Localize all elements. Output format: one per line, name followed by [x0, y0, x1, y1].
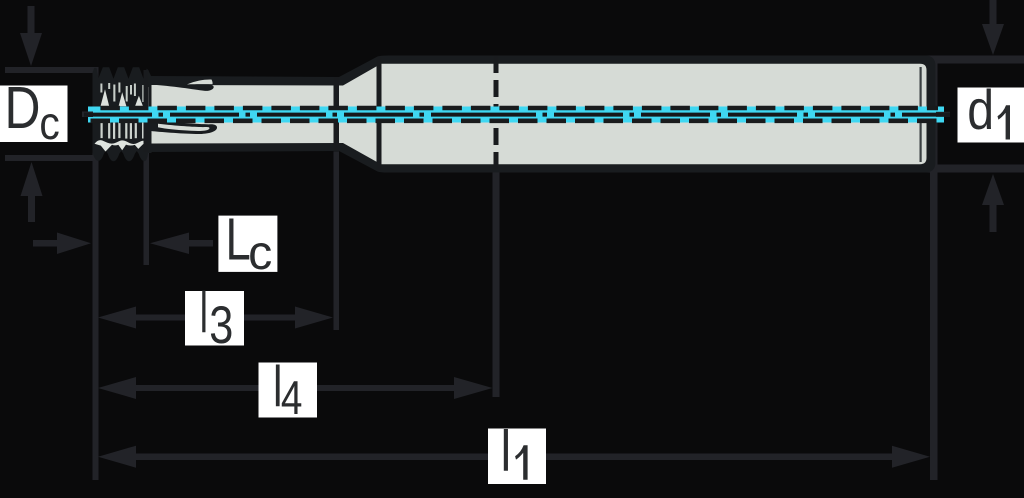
- d1 arrow down (top right): [982, 0, 1004, 55]
- extension line: vertical at neck end (l3) below body: [334, 152, 340, 330]
- svg-text:c: c: [248, 226, 272, 280]
- label box l4: [259, 363, 318, 418]
- body line: taper/shank junction at x=379: [377, 57, 382, 171]
- label box l1: [488, 429, 546, 485]
- extension line: d1 top (right): [922, 56, 1024, 64]
- label box l3: [185, 291, 244, 346]
- label box Dc: [0, 86, 68, 143]
- extension line: Dc top (left): [5, 67, 96, 73]
- body line: shank end face inner edge: [920, 67, 922, 162]
- thread upper flank triangle 2: [119, 92, 127, 106]
- thread upper hatch slits: [100, 83, 148, 107]
- label box d1: [958, 88, 1024, 143]
- thread bottom wavy light band: [95, 140, 147, 151]
- centerline cyan band: [88, 107, 944, 123]
- digit 1 of d1 (drawn): [998, 105, 1011, 139]
- Dc arrow up (bottom left): [21, 162, 43, 222]
- Dc arrow down (top left): [20, 6, 42, 66]
- l1 dimension line with arrows: [98, 446, 930, 468]
- thread head dark silhouette with crest zigzag top and scalloped bottom: [93, 67, 152, 161]
- svg-text:l: l: [200, 281, 208, 345]
- tool body silhouette (neck, taper, shank outline): [150, 56, 936, 173]
- centerline middle dash-dot line (left): [84, 113, 500, 117]
- extension line: Dc bottom (left): [5, 155, 96, 161]
- d1 arrow up (bottom right): [982, 174, 1004, 232]
- extension line: vertical at tool tip x=95: [93, 67, 99, 480]
- svg-text:3: 3: [209, 296, 233, 355]
- thread upper flank triangle 3: [135, 96, 143, 107]
- Lc dimension left arrow (pointing right): [33, 233, 91, 255]
- extension line: vertical at end of thread (Lc): [144, 152, 150, 265]
- digit 1 of l1 (drawn): [515, 445, 528, 480]
- thread lower hatch slits: [101, 123, 149, 139]
- flute (lower) inner gray: [158, 124, 210, 131]
- svg-text:d: d: [967, 80, 994, 142]
- body dashed line: l4 position across shank: [494, 56, 499, 172]
- extension line: vertical right end (l1/d1): [930, 60, 938, 480]
- Lc dimension right arrow (pointing left): [150, 233, 213, 255]
- svg-text:D: D: [5, 75, 41, 141]
- l4 dimension line with arrows: [98, 377, 493, 399]
- centerline top dashed line: [94, 106, 938, 111]
- centerline stub right: [936, 112, 950, 117]
- body line: neck end at x=336: [334, 77, 340, 152]
- centerline stub left: [82, 112, 93, 118]
- centerline middle dash-dot line (right): [500, 113, 950, 117]
- flute (upper) gray notch in top outline: [187, 79, 213, 84]
- thread end boundary line: [144, 70, 149, 152]
- svg-text:4: 4: [281, 373, 303, 425]
- svg-text:l: l: [501, 419, 511, 484]
- extension line: vertical at l4 below body: [493, 172, 500, 397]
- l3 dimension line with arrows: [98, 307, 333, 329]
- svg-text:c: c: [39, 98, 59, 150]
- flute (lower) pointed loop outline: [151, 120, 217, 134]
- centerline bottom dashed line: [86, 119, 938, 124]
- extension line: d1 bottom (right): [922, 165, 1024, 173]
- label box Lc: [218, 216, 277, 272]
- flute (upper) dark tongue: [150, 84, 214, 91]
- tool body inner face (gray): [150, 64, 927, 164]
- thread upper flank triangle 1: [101, 89, 110, 106]
- svg-text:L: L: [226, 207, 251, 273]
